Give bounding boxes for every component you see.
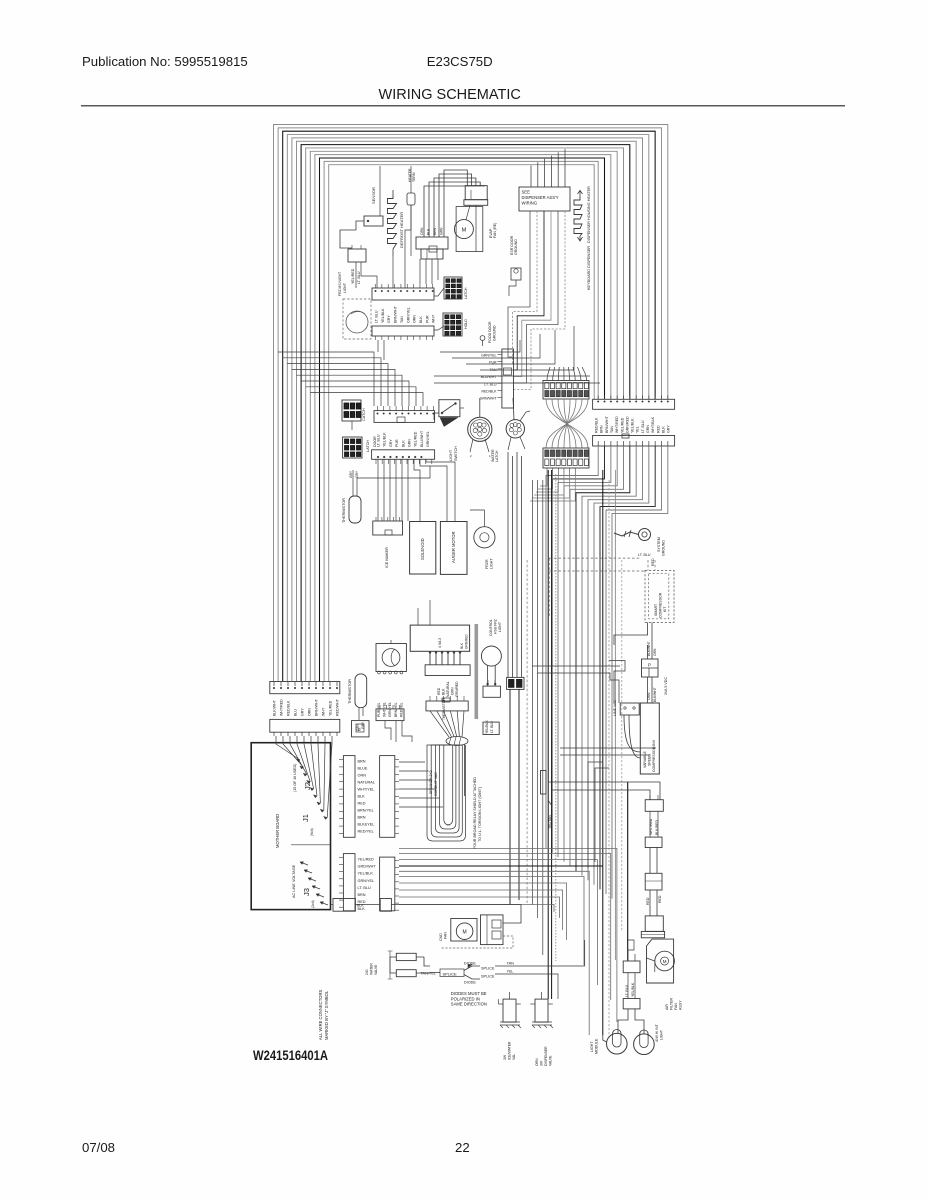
svg-text:LATCH: LATCH xyxy=(464,287,468,299)
svg-text:WHT: WHT xyxy=(432,314,436,323)
svg-text:DEFROST HEATER: DEFROST HEATER xyxy=(399,212,404,248)
svg-text:BLK: BLK xyxy=(358,795,366,799)
svg-text:SWITCH: SWITCH xyxy=(454,446,458,461)
svg-text:WHT: WHT xyxy=(322,707,326,716)
svg-text:LATCH: LATCH xyxy=(495,450,499,462)
svg-text:VALVE: VALVE xyxy=(549,1055,553,1066)
svg-text:FAN: FAN xyxy=(444,932,448,939)
freezer light circle xyxy=(470,510,495,548)
svg-text:GRY: GRY xyxy=(355,470,359,478)
connector block right of J1/J2 labels xyxy=(380,756,399,838)
wires: right-of-bus long verticals to bottom xyxy=(603,470,628,1040)
svg-text:DISPENSER: DISPENSER xyxy=(544,1046,548,1066)
svg-text:THERMISTOR: THERMISTOR xyxy=(348,679,352,704)
svg-text:RED/YEL: RED/YEL xyxy=(358,830,374,834)
fourth box with flange xyxy=(641,916,664,938)
svg-text:BLK: BLK xyxy=(460,642,464,649)
motherboard bottom small box 2 xyxy=(355,899,391,912)
food door ground symbol xyxy=(480,336,485,346)
svg-text:M: M xyxy=(462,227,467,233)
wires: left bundle crossover to door strips xyxy=(278,352,423,406)
wires: strip P4 staircase into central bus xyxy=(546,446,668,899)
svg-text:FOOD DOOR: FOOD DOOR xyxy=(488,321,492,343)
svg-text:YEL/BLK: YEL/BLK xyxy=(631,418,635,433)
svg-text:FAN: FAN xyxy=(674,1003,678,1010)
svg-text:GRN: GRN xyxy=(646,425,650,433)
svg-text:TERM: TERM xyxy=(412,172,416,182)
air filter fan assembly housing xyxy=(647,939,675,983)
svg-text:GRD/WHT: GRD/WHT xyxy=(358,865,377,869)
svg-text:TO U.L. TORSION LIGHT (OMIT): TO U.L. TORSION LIGHT (OMIT) xyxy=(478,787,482,842)
svg-text:GRN/YEL: GRN/YEL xyxy=(388,702,392,717)
svg-text:DISPENSER HOUSING HEATER: DISPENSER HOUSING HEATER xyxy=(587,186,591,243)
connector strip B xyxy=(372,326,434,340)
harness conduit thick band xyxy=(474,624,478,719)
second emitter box xyxy=(645,811,662,847)
svg-text:BLK/RED: BLK/RED xyxy=(655,820,659,835)
connector strip P3 (right, top) xyxy=(593,396,675,410)
damper control box xyxy=(410,625,469,651)
wires: relay block nested corners into evap fan connector xyxy=(424,170,485,237)
thermistor capsule (near motherboard) xyxy=(355,674,367,720)
svg-text:CATCH: CATCH xyxy=(362,408,366,421)
svg-text:MOTHER BOARD: MOTHER BOARD xyxy=(275,814,280,848)
svg-text:BLU/WHT: BLU/WHT xyxy=(420,430,424,447)
wires: dispenser box drops stepping left to door connector xyxy=(508,211,565,390)
svg-text:YEL: YEL xyxy=(636,426,640,433)
svg-text:YEL/BLK: YEL/BLK xyxy=(383,432,387,447)
svg-text:BRN/YEL: BRN/YEL xyxy=(358,809,374,813)
svg-text:WIRING: WIRING xyxy=(522,201,538,206)
svg-text:3W: 3W xyxy=(540,1060,544,1066)
svg-text:CND: CND xyxy=(439,933,443,941)
svg-text:ORN: ORN xyxy=(358,774,367,778)
wires to lamps xyxy=(603,1009,644,1042)
infrared emitter connector box xyxy=(645,795,663,811)
svg-text:TAN: TAN xyxy=(610,426,614,433)
svg-text:YEL/BLK: YEL/BLK xyxy=(381,308,385,323)
svg-text:4 VA 3: 4 VA 3 xyxy=(438,638,442,648)
wires: center dark verticals to valves xyxy=(527,470,556,999)
cnd fan connector xyxy=(481,915,504,945)
svg-text:LINE VAC: LINE VAC xyxy=(613,699,617,716)
splice diode network xyxy=(421,940,585,999)
light switch xyxy=(434,400,464,427)
system ground ring terminal xyxy=(614,529,651,541)
svg-text:P: P xyxy=(648,663,651,668)
svg-text:BRN: BRN xyxy=(600,425,604,433)
svg-text:WHT/RED: WHT/RED xyxy=(615,416,619,433)
wires: upper grids to strips xyxy=(434,288,444,330)
svg-text:GROUND: GROUND xyxy=(662,540,666,556)
mother board outline xyxy=(251,743,330,910)
lower sub column connector xyxy=(623,973,640,1009)
svg-text:(2x4): (2x4) xyxy=(311,900,315,908)
svg-text:GRN/WHT: GRN/WHT xyxy=(480,397,498,401)
svg-text:SAME DIRECTION: SAME DIRECTION xyxy=(451,1002,487,1007)
svg-text:(15 OF 16 USED): (15 OF 16 USED) xyxy=(293,764,297,792)
wire: smart compressor to relay xyxy=(614,622,652,659)
svg-text:GRN/YEL: GRN/YEL xyxy=(406,307,410,323)
svg-text:YEL/BLK: YEL/BLK xyxy=(631,982,635,997)
svg-text:YEL/BLK: YEL/BLK xyxy=(358,872,374,876)
svg-text:GRY: GRY xyxy=(389,439,393,447)
svg-text:SENSOR: SENSOR xyxy=(371,187,376,204)
ice water valve coil xyxy=(498,992,521,1028)
svg-text:WIRING SCHEMATIC: WIRING SCHEMATIC xyxy=(379,87,521,103)
strip A wire labels xyxy=(375,305,436,323)
svg-text:Publication No: 5995519815: Publication No: 5995519815 xyxy=(82,54,248,69)
svg-text:RED: RED xyxy=(658,895,662,903)
svg-text:RED/BLK: RED/BLK xyxy=(287,700,291,716)
svg-text:ICE/WATER: ICE/WATER xyxy=(508,1041,512,1060)
wire: sensor to lower box xyxy=(340,230,356,248)
light module lamp 2 xyxy=(634,1030,655,1054)
connector J3 pin strip xyxy=(339,854,355,911)
wires: dispenser box risers to top bundle xyxy=(531,149,565,187)
svg-text:ORN: ORN xyxy=(413,315,417,323)
svg-text:WATER: WATER xyxy=(370,963,374,975)
svg-text:SEE: SEE xyxy=(522,190,531,195)
J1/J2 wire color labels xyxy=(358,760,375,834)
svg-text:LT. BLU: LT. BLU xyxy=(358,886,371,890)
svg-text:NATURAL: NATURAL xyxy=(446,681,450,697)
solenoid box xyxy=(410,522,436,575)
svg-text:FAN (RE): FAN (RE) xyxy=(493,223,497,238)
connector strip E (above cable) xyxy=(426,696,468,711)
svg-text:FRZ MS NIGHT: FRZ MS NIGHT xyxy=(338,272,342,296)
ice maker relay block xyxy=(416,237,448,259)
svg-text:YEL/RED: YEL/RED xyxy=(358,858,375,862)
svg-text:GROUND: GROUND xyxy=(514,239,518,255)
svg-text:BRN/YEL: BRN/YEL xyxy=(394,702,398,717)
evap fan connector block xyxy=(464,186,488,206)
svg-text:BLK&YEL: BLK&YEL xyxy=(358,823,375,827)
auger motor box xyxy=(440,522,467,575)
svg-text:BRN/WHT: BRN/WHT xyxy=(315,698,319,716)
svg-text:HOLD: HOLD xyxy=(464,319,468,329)
svg-text:BLK: BLK xyxy=(401,440,405,447)
wires: round connectors down to door harness connector xyxy=(508,452,522,677)
svg-text:07/08: 07/08 xyxy=(82,1140,115,1155)
svg-text:LIGHT: LIGHT xyxy=(498,622,502,632)
svg-text:SPLICE: SPLICE xyxy=(481,975,495,979)
twin wires down 2 xyxy=(650,890,657,916)
left sub column connector LT.BLU/YEL-BLK xyxy=(623,940,640,973)
long wire from box2 to right xyxy=(391,904,521,906)
wires into damper box top xyxy=(417,608,419,625)
connector strip C xyxy=(374,406,435,423)
svg-text:BRN: BRN xyxy=(358,760,366,764)
crossover harness upper grid xyxy=(543,367,589,399)
svg-text:M: M xyxy=(463,929,467,935)
svg-text:BLK/WHT: BLK/WHT xyxy=(653,687,657,702)
food door connector (vertical) xyxy=(498,349,514,408)
third box xyxy=(645,873,662,890)
svg-text:CONTROL: CONTROL xyxy=(489,619,493,636)
catch 6-pin connector grid xyxy=(342,400,361,421)
svg-text:240: 240 xyxy=(365,969,369,975)
svg-text:RED: RED xyxy=(646,897,650,905)
relay wire labels xyxy=(420,227,444,235)
svg-text:LATCH: LATCH xyxy=(366,440,370,452)
svg-text:J1: J1 xyxy=(301,814,310,822)
svg-text:GRN/YEL: GRN/YEL xyxy=(426,431,430,447)
svg-text:LIGHT: LIGHT xyxy=(449,449,453,461)
wires entering right column connector xyxy=(548,782,660,800)
terminal box YEL/RED LT.BLU xyxy=(348,245,366,262)
wires into line vac from left xyxy=(532,661,625,704)
svg-text:LT. BLU: LT. BLU xyxy=(357,271,361,284)
svg-text:ORN: ORN xyxy=(420,227,424,235)
svg-text:YEL: YEL xyxy=(507,970,514,974)
wires: relay block to strip A xyxy=(420,259,438,284)
svg-text:GRY: GRY xyxy=(301,708,305,716)
connector strip D xyxy=(372,450,435,464)
svg-text:LIGHT: LIGHT xyxy=(660,1030,664,1040)
junction dots row on strip D xyxy=(377,456,422,458)
svg-text:CONDUIT VAC: CONDUIT VAC xyxy=(434,772,438,796)
svg-text:MARKED BY “J” SYMBOL: MARKED BY “J” SYMBOL xyxy=(324,990,329,1040)
svg-text:W241516401A: W241516401A xyxy=(253,1048,328,1063)
wires damper box to strip xyxy=(429,651,461,665)
title underline xyxy=(81,105,845,107)
svg-text:LT. BLU: LT. BLU xyxy=(375,310,379,323)
adjustable thermistor capsule xyxy=(349,466,430,523)
svg-text:LT. BLU: LT. BLU xyxy=(641,420,645,433)
connector block right of J3 labels xyxy=(380,857,399,911)
wire color labels between right strips xyxy=(595,415,671,433)
J3 wire color labels xyxy=(358,858,377,912)
svg-text:YEL/RED: YEL/RED xyxy=(351,268,355,284)
svg-text:GRY: GRY xyxy=(667,425,671,433)
svg-text:GRY: GRY xyxy=(387,315,391,323)
svg-text:YEL/RED: YEL/RED xyxy=(620,417,624,433)
svg-text:KIT: KIT xyxy=(663,606,667,612)
svg-text:YEL/TAN: YEL/TAN xyxy=(548,815,552,829)
svg-text:SYSTEM: SYSTEM xyxy=(657,537,661,552)
svg-text:GRN: GRN xyxy=(451,687,455,695)
svg-text:GRN/RED: GRN/RED xyxy=(465,634,469,649)
svg-text:VALVE: VALVE xyxy=(374,964,378,975)
svg-text:BRN/WHT: BRN/WHT xyxy=(605,415,609,433)
smart compressor dashed box xyxy=(645,570,674,622)
dispenser housing heater resistor (meander) xyxy=(574,191,583,242)
small box with d xyxy=(352,721,370,737)
wires: sensor/heater risers to strip A xyxy=(356,205,411,288)
svg-text:SPLICE: SPLICE xyxy=(481,967,495,971)
variable speed compressor box xyxy=(640,703,659,774)
food door connector labels xyxy=(480,354,498,401)
svg-text:BRN: BRN xyxy=(358,893,366,897)
svg-text:SMART: SMART xyxy=(654,603,658,616)
svg-text:22: 22 xyxy=(455,1140,470,1155)
svg-text:TAN: TAN xyxy=(400,316,404,323)
svg-text:PUR/YEL: PUR/YEL xyxy=(377,702,381,717)
compressor relay box P xyxy=(642,659,659,677)
small box below xyxy=(483,722,499,734)
wires cnd fan connector to right xyxy=(440,905,521,949)
wires: mid horizontals y748-800 right side xyxy=(560,748,656,868)
cable U loop bundle xyxy=(427,744,466,841)
svg-text:SPLICE: SPLICE xyxy=(443,971,458,976)
note diodes must be polarized xyxy=(451,991,487,1007)
svg-text:GROUND: GROUND xyxy=(493,325,497,341)
wires: strip D down to ice maker, solenoid, auger xyxy=(378,459,455,521)
svg-text:GRN/RED: GRN/RED xyxy=(625,416,629,433)
svg-text:WHT/RED: WHT/RED xyxy=(280,699,284,716)
svg-text:RED/BLK: RED/BLK xyxy=(482,390,498,394)
svg-text:MODULE: MODULE xyxy=(595,1038,599,1054)
wires: strips to upper components risers xyxy=(434,326,600,383)
defrost heater resistor zigzag xyxy=(388,190,397,256)
hold 12-pin grid connector lower xyxy=(443,313,462,336)
svg-text:GRN: GRN xyxy=(408,439,412,447)
svg-text:LT. BLU: LT. BLU xyxy=(625,984,629,997)
svg-text:BRN: BRN xyxy=(358,816,366,820)
svg-text:WHT/BLK: WHT/BLK xyxy=(651,416,655,433)
svg-text:RED: RED xyxy=(651,558,655,566)
defrost thermostat wire labels xyxy=(377,671,403,717)
svg-text:RED/WHT: RED/WHT xyxy=(336,698,340,716)
svg-text:BLK: BLK xyxy=(419,316,423,323)
svg-text:COMPRESSOR: COMPRESSOR xyxy=(659,592,663,618)
svg-text:LT. BLU: LT. BLU xyxy=(377,434,381,447)
svg-text:GRY: GRY xyxy=(361,721,365,729)
svg-text:RED/BLK: RED/BLK xyxy=(595,417,599,433)
mother board internal divider xyxy=(291,844,331,846)
svg-text:HSG FRZ: HSG FRZ xyxy=(494,619,498,634)
wires: J3 distribution to right bus xyxy=(399,848,617,1035)
svg-text:YEL/RED: YEL/RED xyxy=(329,700,333,716)
wires: strip B down to catch/latch grids xyxy=(352,340,384,430)
svg-text:BLK: BLK xyxy=(357,904,364,908)
dispenser assy wiring box xyxy=(519,187,570,211)
damper wire labels xyxy=(437,681,459,697)
motherboard bottom small box 1 xyxy=(331,899,356,912)
svg-text:TAN: TAN xyxy=(507,962,515,966)
svg-text:RED/YEL: RED/YEL xyxy=(399,702,403,717)
svg-text:RED: RED xyxy=(656,425,660,433)
svg-text:FILTER: FILTER xyxy=(670,997,674,1010)
svg-text:BLK/WHT: BLK/WHT xyxy=(647,641,651,656)
strip C wire labels xyxy=(377,430,431,447)
svg-text:ORN: ORN xyxy=(308,708,312,716)
svg-text:LIGHT: LIGHT xyxy=(343,283,347,293)
svg-text:COMPRESSOR/INV: COMPRESSOR/INV xyxy=(652,739,656,772)
connector strip P2 (left, lower) xyxy=(270,719,340,736)
wires: thermostat area risers xyxy=(385,721,412,742)
svg-text:THERMISTOR: THERMISTOR xyxy=(442,698,446,720)
svg-text:GRN/YEL: GRN/YEL xyxy=(481,354,496,358)
svg-text:ASSY: ASSY xyxy=(679,1000,683,1010)
svg-text:ALL WIRE CONNECTORS: ALL WIRE CONNECTORS xyxy=(318,990,323,1040)
svg-text:GRN: GRN xyxy=(440,227,444,235)
svg-text:ORN: ORN xyxy=(653,648,657,656)
wires: crossover lower grid stubs xyxy=(530,476,575,501)
svg-text:POLARIZED IN: POLARIZED IN xyxy=(451,996,480,1001)
svg-text:WHT/RED: WHT/RED xyxy=(649,818,653,835)
svg-text:BLK/WHT: BLK/WHT xyxy=(273,699,277,716)
dispenser valve coil xyxy=(530,992,553,1028)
curved wires line vac to compressor xyxy=(624,715,640,758)
svg-text:40W HI INT: 40W HI INT xyxy=(655,1024,659,1042)
svg-text:RED: RED xyxy=(437,687,441,695)
evaporator fan motor and bracket xyxy=(454,205,482,251)
twin wires down xyxy=(650,848,657,874)
connector strip P4 (right, bottom) xyxy=(593,434,675,446)
svg-text:LIGHT: LIGHT xyxy=(590,1041,594,1052)
svg-text:M: M xyxy=(663,959,667,964)
svg-text:3W: 3W xyxy=(503,1054,507,1060)
round connector 2 xyxy=(506,398,530,450)
svg-text:VAL: VAL xyxy=(512,1054,516,1060)
svg-text:3VA 5 VDC: 3VA 5 VDC xyxy=(664,677,668,695)
svg-text:LT. BLU: LT. BLU xyxy=(638,553,651,557)
svg-text:SOLENOID: SOLENOID xyxy=(420,538,425,560)
svg-text:GRY: GRY xyxy=(349,470,353,478)
light module lamp 1 xyxy=(607,1030,628,1054)
wires: strip P2 fan into J2/J1 with arrowheads xyxy=(276,736,332,819)
wires relay to compressor xyxy=(648,677,653,703)
svg-text:ICE MAKER: ICE MAKER xyxy=(385,547,389,568)
crossover wires X pattern xyxy=(546,399,588,448)
svg-text:NATURAL: NATURAL xyxy=(358,781,375,785)
svg-text:AIR: AIR xyxy=(665,1004,669,1010)
svg-text:BLK: BLK xyxy=(661,426,665,433)
svg-text:LIGHT: LIGHT xyxy=(490,558,494,569)
connector J2/J1 pin strip xyxy=(339,756,355,838)
defrost heater terminator xyxy=(380,166,415,256)
svg-text:DIODE: DIODE xyxy=(464,981,476,985)
svg-text:PUR: PUR xyxy=(395,439,399,447)
connector strip A xyxy=(372,284,434,300)
wires: J3 fan with arrowheads xyxy=(300,862,328,905)
freezer night light dashed housing xyxy=(343,299,371,339)
svg-text:SPEED: SPEED xyxy=(648,754,652,766)
damper connector strip xyxy=(425,665,470,676)
svg-text:KEYBOARD DISPENSER: KEYBOARD DISPENSER xyxy=(587,246,591,290)
svg-text:BLK: BLK xyxy=(358,907,366,911)
svg-text:PUR: PUR xyxy=(425,315,429,323)
dark pin connector top (x 505-525) xyxy=(507,677,524,905)
svg-text:J3: J3 xyxy=(302,888,311,896)
svg-text:THERMISTOR: THERMISTOR xyxy=(342,498,346,523)
freezer light bulb circle xyxy=(346,311,368,333)
cnd fan assembly xyxy=(451,919,477,942)
connector strip P1 (left, above mother board) xyxy=(270,682,340,694)
svg-text:BLK: BLK xyxy=(442,688,446,695)
svg-text:DISPENSER ASS'Y: DISPENSER ASS'Y xyxy=(522,195,559,200)
ice maker connector xyxy=(373,517,403,535)
sensor box xyxy=(356,216,383,230)
svg-text:RED: RED xyxy=(358,802,366,806)
inline fuse on vertical wire xyxy=(541,771,553,807)
thermostat lower strip xyxy=(376,705,404,721)
wires: J1 block right horizontals xyxy=(399,762,443,807)
svg-text:AC LINE VOLTAGE: AC LINE VOLTAGE xyxy=(292,864,296,898)
wire bundle: nested top harness loops (left leg, top run, right leg) xyxy=(274,125,668,682)
svg-text:DIODES MUST BE: DIODES MUST BE xyxy=(451,991,487,996)
cable sheath ellipse xyxy=(446,737,468,746)
svg-text:BLK: BLK xyxy=(427,228,431,235)
dashed wires to smart compressor xyxy=(549,558,655,618)
svg-text:ORN: ORN xyxy=(535,1058,539,1066)
svg-text:E23CS75D: E23CS75D xyxy=(427,54,493,69)
svg-text:GRN/RED: GRN/RED xyxy=(455,681,459,697)
water valve coils xyxy=(388,951,424,979)
svg-text:BLUE: BLUE xyxy=(358,767,368,771)
